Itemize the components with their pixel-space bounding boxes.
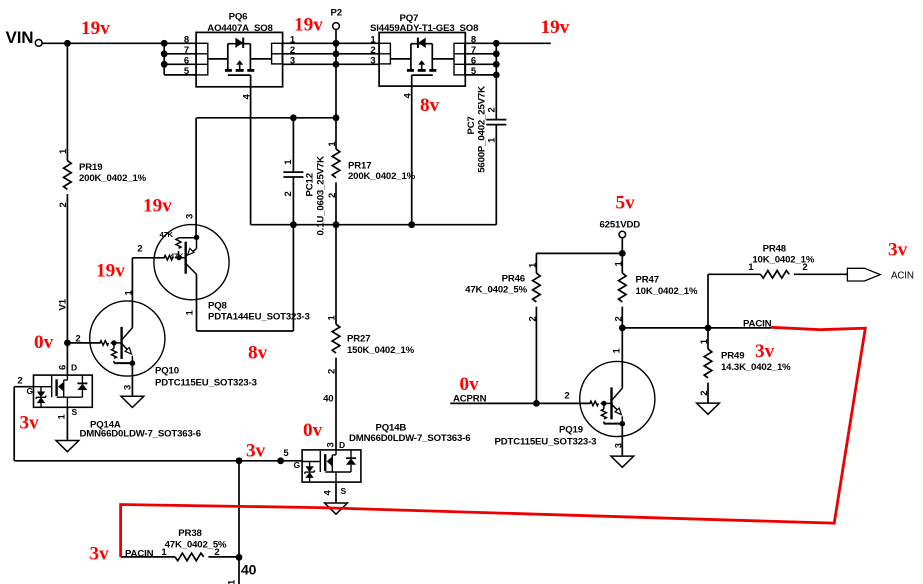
capacitor PC7 5600P_0402_25V7K <box>466 75 507 225</box>
wire PQ14B source to ground <box>335 482 337 503</box>
wire PACIN to PQ19 collector <box>621 328 623 388</box>
svg-text:40: 40 <box>241 561 257 577</box>
junction dots on 8v rail <box>290 221 415 228</box>
junction dots on drain net at P2 rail <box>333 40 340 68</box>
wire P2 stem down through pins to gate node <box>335 29 337 117</box>
net label 3v (bottom left) <box>90 544 110 565</box>
svg-text:DMN66D0LDW-7_SOT363-6: DMN66D0LDW-7_SOT363-6 <box>80 429 201 440</box>
net label 3v at ACIN <box>888 240 908 261</box>
wire PQ14A gate / 3v net run <box>14 387 302 461</box>
svg-text:3: 3 <box>370 56 375 67</box>
net name 40 (on rail) <box>323 394 333 405</box>
svg-text:5600P_0402_25V7K: 5600P_0402_25V7K <box>477 86 488 173</box>
svg-text:3v: 3v <box>90 544 110 565</box>
svg-text:P2: P2 <box>331 7 342 18</box>
resistor PR49 14.3K_0402_1% <box>699 328 791 403</box>
svg-text:6251VDD: 6251VDD <box>600 219 641 230</box>
net label 3v at PQ14B gate <box>246 441 266 462</box>
svg-text:2: 2 <box>699 391 710 396</box>
svg-text:0v: 0v <box>34 332 54 353</box>
svg-text:3v: 3v <box>755 341 775 362</box>
svg-text:PDTA144EU_SOT323-3: PDTA144EU_SOT323-3 <box>208 311 310 322</box>
junction dot ACPRN/PR46 <box>533 400 540 407</box>
svg-text:5: 5 <box>283 448 289 459</box>
pin 1 stub at sheet bottom <box>227 579 238 584</box>
resistor PR19 200K_0402_1% <box>58 43 147 343</box>
svg-text:PQ14B: PQ14B <box>376 422 407 433</box>
svg-text:2: 2 <box>370 45 375 56</box>
svg-text:47K_0402_5%: 47K_0402_5% <box>465 285 527 296</box>
svg-text:0v: 0v <box>303 420 323 441</box>
junction dots on gate node <box>290 114 339 121</box>
svg-text:47K: 47K <box>160 230 174 239</box>
svg-text:ACIN: ACIN <box>891 270 914 281</box>
junction dots at PQ7 output pins <box>493 40 500 78</box>
svg-text:40: 40 <box>323 394 333 405</box>
svg-text:5: 5 <box>184 66 190 77</box>
junction dot PACIN/PR48/PR49 <box>705 325 712 332</box>
svg-text:PACIN: PACIN <box>743 319 772 330</box>
net label 19v near PQ10 <box>96 261 125 282</box>
resistor PR27 150K_0402_1% <box>327 225 415 450</box>
svg-text:1: 1 <box>58 148 69 154</box>
svg-text:PR48: PR48 <box>763 244 787 255</box>
svg-text:VIN: VIN <box>6 28 34 47</box>
net label 3v at PR49 <box>755 341 775 362</box>
wire PQ7 pins 8,7,6,5 to output rail <box>465 43 497 75</box>
svg-text:1: 1 <box>487 137 498 143</box>
capacitor PC12 0.1U_0603_25V7K <box>283 118 327 331</box>
svg-text:2: 2 <box>17 375 22 386</box>
junction dots on 3v net <box>236 457 284 464</box>
wire bundle to PQ6 pins 7,6,5 <box>164 43 196 75</box>
wire 19v output <box>496 42 551 44</box>
svg-text:6: 6 <box>58 365 69 370</box>
svg-text:5v: 5v <box>616 192 636 213</box>
svg-text:PR19: PR19 <box>79 162 102 173</box>
svg-text:PQ19: PQ19 <box>559 424 583 435</box>
net label 8v (lower) <box>248 343 268 364</box>
svg-text:1: 1 <box>227 579 238 584</box>
svg-text:19v: 19v <box>81 18 110 39</box>
wire V1 node to PQ14A drain <box>66 343 68 375</box>
wire PQ14A source to ground <box>66 407 68 440</box>
wire PQ6 pin 4 (gate) down to 8v rail <box>250 75 252 225</box>
MOSFET PQ6 AO4407A SO8 <box>184 11 296 99</box>
svg-text:2: 2 <box>564 390 569 401</box>
svg-text:PR17: PR17 <box>348 160 371 171</box>
net label 19v (left) <box>81 18 110 39</box>
svg-text:PC7: PC7 <box>466 116 477 134</box>
svg-text:PQ10: PQ10 <box>155 365 179 376</box>
svg-text:PQ6: PQ6 <box>229 11 248 22</box>
svg-text:PR27: PR27 <box>347 333 370 344</box>
svg-text:PDTC115EU_SOT323-3: PDTC115EU_SOT323-3 <box>495 436 597 447</box>
wire 3v junction down to net 40 <box>238 461 240 584</box>
ground at PR49 <box>697 403 720 414</box>
svg-text:PQ8: PQ8 <box>208 300 228 311</box>
net 19v wire from VIN to PQ6 <box>42 42 196 44</box>
svg-text:1: 1 <box>327 315 338 321</box>
net label 19v (right) <box>541 17 570 38</box>
svg-text:1: 1 <box>184 310 195 316</box>
net label 8v near PQ7 gate <box>420 95 440 116</box>
svg-text:7: 7 <box>184 45 189 56</box>
ground at PQ14B source <box>325 503 348 514</box>
wire PQ19 emitter to ground <box>621 424 623 456</box>
resistor PR38 47K_0402_5% <box>121 528 239 561</box>
svg-text:1: 1 <box>327 141 338 147</box>
svg-text:1: 1 <box>283 159 294 165</box>
svg-text:10K_0402_1%: 10K_0402_1% <box>752 254 814 265</box>
svg-text:2: 2 <box>487 107 498 112</box>
svg-text:2: 2 <box>327 369 338 374</box>
svg-text:2: 2 <box>137 244 142 255</box>
net label 19v near PQ8 <box>143 196 172 217</box>
svg-text:8: 8 <box>184 35 189 46</box>
svg-text:3v: 3v <box>20 412 40 433</box>
wire PQ10 emitter to ground <box>131 363 133 396</box>
transistor PQ10 PDTC115EU_SOT323-3 <box>67 290 256 391</box>
svg-text:0.1U_0603_25V7K: 0.1U_0603_25V7K <box>316 156 327 236</box>
svg-text:D: D <box>71 362 77 372</box>
net label PACIN <box>743 319 772 330</box>
svg-text:47K: 47K <box>170 251 184 260</box>
svg-text:4: 4 <box>323 490 334 496</box>
net label 5v <box>616 192 636 213</box>
svg-text:1: 1 <box>57 414 68 420</box>
svg-text:19v: 19v <box>541 17 570 38</box>
transistor PQ19 PDTC115EU_SOT323-3 <box>495 348 655 449</box>
svg-text:1: 1 <box>370 35 376 46</box>
svg-text:1: 1 <box>614 261 625 267</box>
resistor PR17 200K_0402_1% <box>327 118 415 225</box>
junction dot V1/0v node <box>64 340 71 347</box>
svg-text:6: 6 <box>184 56 189 67</box>
svg-text:D: D <box>339 440 345 450</box>
svg-text:S: S <box>341 486 347 496</box>
resistor PR47 10K_0402_1% <box>614 253 698 328</box>
wire PQ8 collector to 8v rail <box>197 330 294 332</box>
port ACIN <box>847 268 913 281</box>
net label 0v at ACPRN <box>460 374 480 395</box>
svg-text:PR46: PR46 <box>502 273 525 284</box>
resistor PR48 10K_0402_1% <box>708 244 847 328</box>
wire PQ8 emitter lead up to node <box>195 118 197 237</box>
svg-text:19v: 19v <box>96 261 125 282</box>
svg-text:200K_0402_1%: 200K_0402_1% <box>348 171 416 182</box>
svg-text:2: 2 <box>283 191 294 196</box>
ground at PQ19 emitter <box>611 456 634 467</box>
svg-text:19v: 19v <box>143 196 172 217</box>
svg-text:1: 1 <box>612 348 623 354</box>
net label PACIN (bottom) <box>125 548 154 559</box>
svg-text:19v: 19v <box>294 15 323 36</box>
svg-text:1: 1 <box>699 338 710 344</box>
wire common drain pins PQ6.1-3 to PQ7.1-3 <box>282 43 379 64</box>
svg-text:0v: 0v <box>460 374 480 395</box>
svg-text:14.3K_0402_1%: 14.3K_0402_1% <box>721 362 791 373</box>
junction on VIN net at PR19 rail <box>64 40 71 47</box>
svg-text:1: 1 <box>528 262 539 268</box>
wire PQ8 base to PQ10 collector <box>132 258 164 328</box>
highlighted net PACIN routing (red) <box>121 327 866 557</box>
svg-text:PC12: PC12 <box>305 173 316 196</box>
svg-text:2: 2 <box>614 316 625 321</box>
net label 0v at PQ14B <box>303 420 323 441</box>
svg-text:3: 3 <box>326 442 337 447</box>
resistor PR46 47K_0402_5% <box>465 253 540 403</box>
wire gate-drive node (drain 19v node horizontal) <box>197 117 337 119</box>
svg-text:2: 2 <box>528 316 539 321</box>
svg-text:8v: 8v <box>248 343 268 364</box>
svg-text:3: 3 <box>184 214 195 219</box>
net label 3v at PQ14A gate <box>20 412 40 433</box>
svg-text:G: G <box>294 460 301 470</box>
svg-text:PDTC115EU_SOT323-3: PDTC115EU_SOT323-3 <box>155 377 257 388</box>
dual MOSFET PQ14A DMN66D0LDW-7_SOT363-6 <box>17 362 200 439</box>
ground at PQ10 emitter <box>121 396 144 407</box>
dual MOSFET PQ14B DMN66D0LDW-7_SOT363-6 <box>283 422 470 495</box>
svg-text:PR47: PR47 <box>636 274 659 285</box>
svg-text:200K_0402_1%: 200K_0402_1% <box>79 173 147 184</box>
net label ACPRN <box>453 393 487 404</box>
MOSFET PQ7 SI4459ADY-T1-GE3 SO8 <box>370 13 479 99</box>
testpoint P2 <box>331 7 342 29</box>
power terminal 6251VDD <box>600 219 641 253</box>
net name V1 <box>58 298 69 310</box>
transistor PQ8 PDTA144EU_SOT323-3 <box>137 214 309 331</box>
net label 19v (middle) <box>294 15 323 36</box>
svg-text:150K_0402_1%: 150K_0402_1% <box>347 345 415 356</box>
svg-text:DMN66D0LDW-7_SOT363-6: DMN66D0LDW-7_SOT363-6 <box>349 433 470 444</box>
net name 40 (bottom) <box>241 561 257 577</box>
wire 5v node horizontal <box>536 252 622 254</box>
svg-text:S: S <box>72 407 78 417</box>
net label 0v at PQ10 base <box>34 332 54 353</box>
wire PACIN node <box>622 327 771 329</box>
junction dot PR47/PACIN <box>619 325 626 332</box>
svg-text:2: 2 <box>75 333 80 344</box>
svg-text:3v: 3v <box>246 441 266 462</box>
junction dot at PR38.2 / net 40 <box>236 554 243 561</box>
svg-text:2: 2 <box>327 193 338 198</box>
svg-text:3v: 3v <box>888 240 908 261</box>
junction dot at 6251VDD <box>619 250 626 257</box>
svg-text:10K_0402_1%: 10K_0402_1% <box>636 286 698 297</box>
junction dots at PQ6 pin bundle <box>161 40 168 68</box>
svg-text:1: 1 <box>123 290 134 296</box>
svg-text:V1: V1 <box>58 298 69 310</box>
svg-text:PR38: PR38 <box>178 528 202 539</box>
ground at PQ14A source <box>56 441 79 452</box>
port VIN <box>6 28 43 47</box>
wire 8v rail <box>251 224 497 226</box>
svg-text:47K_0402_5%: 47K_0402_5% <box>165 539 227 550</box>
svg-text:2: 2 <box>58 202 69 207</box>
svg-text:8v: 8v <box>420 95 440 116</box>
svg-text:PR49: PR49 <box>721 350 744 361</box>
wire PQ7 pin 4 (gate) down to 8v rail <box>411 75 413 225</box>
wire ACPRN to PQ19 base <box>450 402 590 404</box>
